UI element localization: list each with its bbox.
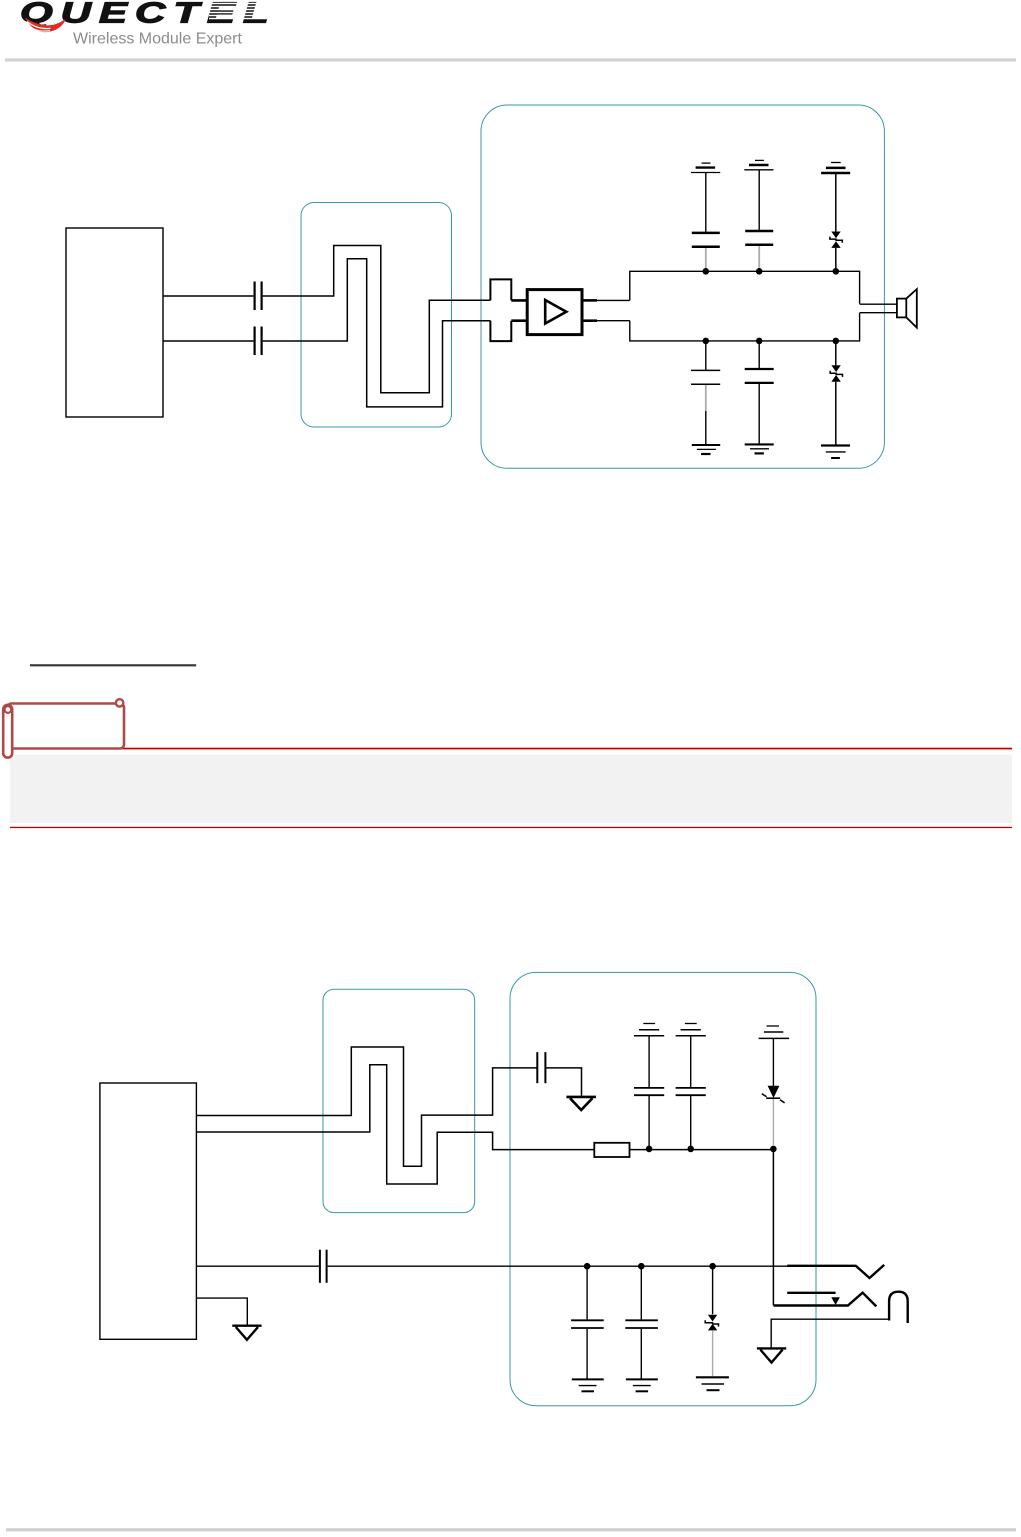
capacitor C9 — [634, 1088, 664, 1095]
speaker network block — [630, 271, 860, 341]
sleeve wire to ground — [771, 1319, 889, 1347]
jack sleeve hook — [889, 1292, 908, 1323]
wire node to C4 — [705, 341, 707, 370]
ground (sch2 TVS) — [696, 1377, 729, 1390]
junction node — [638, 1263, 645, 1270]
wire rail to C9 — [648, 1037, 650, 1088]
junction node — [687, 1146, 694, 1153]
meander trace P (wire C1 to cross) — [263, 246, 491, 393]
junction node — [646, 1146, 653, 1153]
wire U1 outputs to network block — [582, 300, 630, 320]
AGND triangle (top branch) — [566, 1097, 596, 1110]
wire D3 to node (gray) — [772, 1099, 774, 1146]
meander trace A (HSP wire) — [196, 1047, 537, 1166]
junction node — [703, 268, 710, 275]
resistor R1 — [594, 1143, 629, 1157]
ground (sch2 col 1) — [572, 1379, 604, 1391]
junction node — [756, 268, 763, 275]
wire C6 to jack — [328, 1265, 788, 1267]
wire C12 to ground — [640, 1329, 642, 1379]
note rule top (red) — [10, 748, 1012, 750]
speaker LS1 — [897, 289, 917, 328]
wire C5 to AGND triangle — [546, 1068, 582, 1096]
junction node — [833, 268, 840, 275]
TVS diode D1 — [830, 232, 842, 248]
junction node (bottom col 1) — [703, 338, 710, 345]
power rail symbol (sch2, TVS column) — [759, 1026, 790, 1038]
wire rail to D1 — [835, 174, 837, 232]
wire C4 to ground (gray upper part) — [705, 385, 707, 411]
wire node to C11 — [586, 1266, 588, 1319]
Quectel logo wordmark — [20, 0, 284, 29]
capacitor C8 — [745, 369, 774, 383]
ground (col 2) — [745, 444, 774, 453]
wire D1 to node — [835, 248, 837, 269]
wire rail to C7 — [758, 170, 760, 230]
jack contact 1 (mic contact) — [787, 1265, 884, 1278]
wire C8 to ground — [758, 384, 760, 444]
meander trace N (wire C3 to cross) — [263, 259, 491, 407]
junction node (bottom col 2) — [756, 338, 763, 345]
capacitor C2 — [692, 233, 720, 247]
op-amp U1 (audio amplifier) — [527, 290, 582, 335]
wire D2 to ground — [835, 382, 837, 445]
wire node to D2 — [835, 341, 837, 365]
teal region box 2 (speaker network zone, schematic 1) — [481, 105, 884, 468]
power rail symbol (sch2, column 1) — [634, 1024, 664, 1036]
junction node — [584, 1263, 591, 1270]
ground (col 1) — [692, 445, 720, 454]
long vertical wire to jack contact — [772, 1149, 774, 1306]
capacitor C6 (series, mic wire) — [320, 1250, 327, 1283]
footer rule — [6, 1528, 1016, 1531]
capacitor C7 — [745, 231, 773, 245]
ground (sch2 col 2) — [626, 1379, 658, 1391]
capacitor C5 (series, top branch) — [537, 1052, 545, 1083]
wire R1 to TVS node — [630, 1149, 774, 1151]
DGND triangle (module) — [232, 1326, 261, 1340]
junction node — [709, 1263, 716, 1270]
teal region box 1 (meander zone, schematic 1) — [301, 203, 452, 428]
power rail symbol (top, column 2) — [744, 160, 773, 169]
capacitor C3 (series, bottom wire) — [255, 327, 262, 356]
meander trace B (HSN wire) — [196, 1065, 594, 1184]
module M2 — [100, 1083, 196, 1339]
zener TVS diode D3 — [762, 1086, 785, 1103]
wire C10 to node — [690, 1096, 692, 1149]
wire C11 to ground — [586, 1329, 588, 1379]
wire network block to speaker — [860, 304, 897, 313]
capacitor C10 — [676, 1088, 706, 1095]
teal region box 3 (meander zone, schematic 2) — [323, 989, 475, 1212]
TVS diode D4 — [705, 1315, 718, 1331]
capacitor C12 — [625, 1320, 658, 1328]
module M1 — [66, 228, 163, 417]
note body (gray band) — [10, 755, 1012, 824]
wire D4 to ground (gray) — [712, 1330, 714, 1376]
wire rail to C2 — [705, 173, 707, 232]
wire M2 MIC to C6 — [196, 1265, 319, 1267]
power rail symbol (top, column 3) — [821, 163, 850, 174]
wire M1 SPK+ to C1 — [163, 295, 253, 297]
junction node (bottom col 3) — [833, 338, 840, 345]
svg-text:Wireless Module Expert: Wireless Module Expert — [73, 31, 243, 48]
wire rail to C10 — [690, 1037, 692, 1088]
capacitor C4 — [691, 370, 720, 384]
AGND triangle (jack) — [757, 1348, 786, 1362]
wire C7 to node (gray) — [758, 246, 760, 269]
jack contact 2 (switch bar with arrow) — [787, 1293, 840, 1305]
wire node to D4 — [712, 1266, 714, 1314]
module ground stub — [196, 1298, 247, 1325]
power rail symbol (top, column 1) — [691, 163, 720, 172]
teal region box 4 (headset network zone, schematic 2) — [510, 972, 816, 1405]
wire node to C8 — [758, 341, 760, 368]
power rail symbol (sch2, column 2) — [676, 1024, 706, 1036]
wire C2 to node (gray) — [705, 248, 707, 269]
Quectel logo red swoosh — [25, 18, 65, 33]
TVS diode D2 — [830, 365, 842, 381]
note rule bottom (red) — [10, 827, 1012, 828]
wire C9 to node — [648, 1096, 650, 1149]
ground (col 3) — [821, 446, 850, 459]
heading underline — [30, 664, 196, 666]
wire M1 SPK- to C3 — [163, 340, 253, 342]
cross connector J1 — [490, 279, 527, 341]
jack contact 3 (speaker contact) — [774, 1293, 877, 1307]
note scroll banner — [3, 699, 124, 757]
junction node — [770, 1146, 777, 1153]
capacitor C1 (series, top wire) — [255, 282, 262, 311]
header rule — [5, 58, 1016, 61]
capacitor C11 — [571, 1320, 604, 1328]
wire rail to D3 — [772, 1039, 774, 1086]
wire node to C12 — [640, 1266, 642, 1319]
